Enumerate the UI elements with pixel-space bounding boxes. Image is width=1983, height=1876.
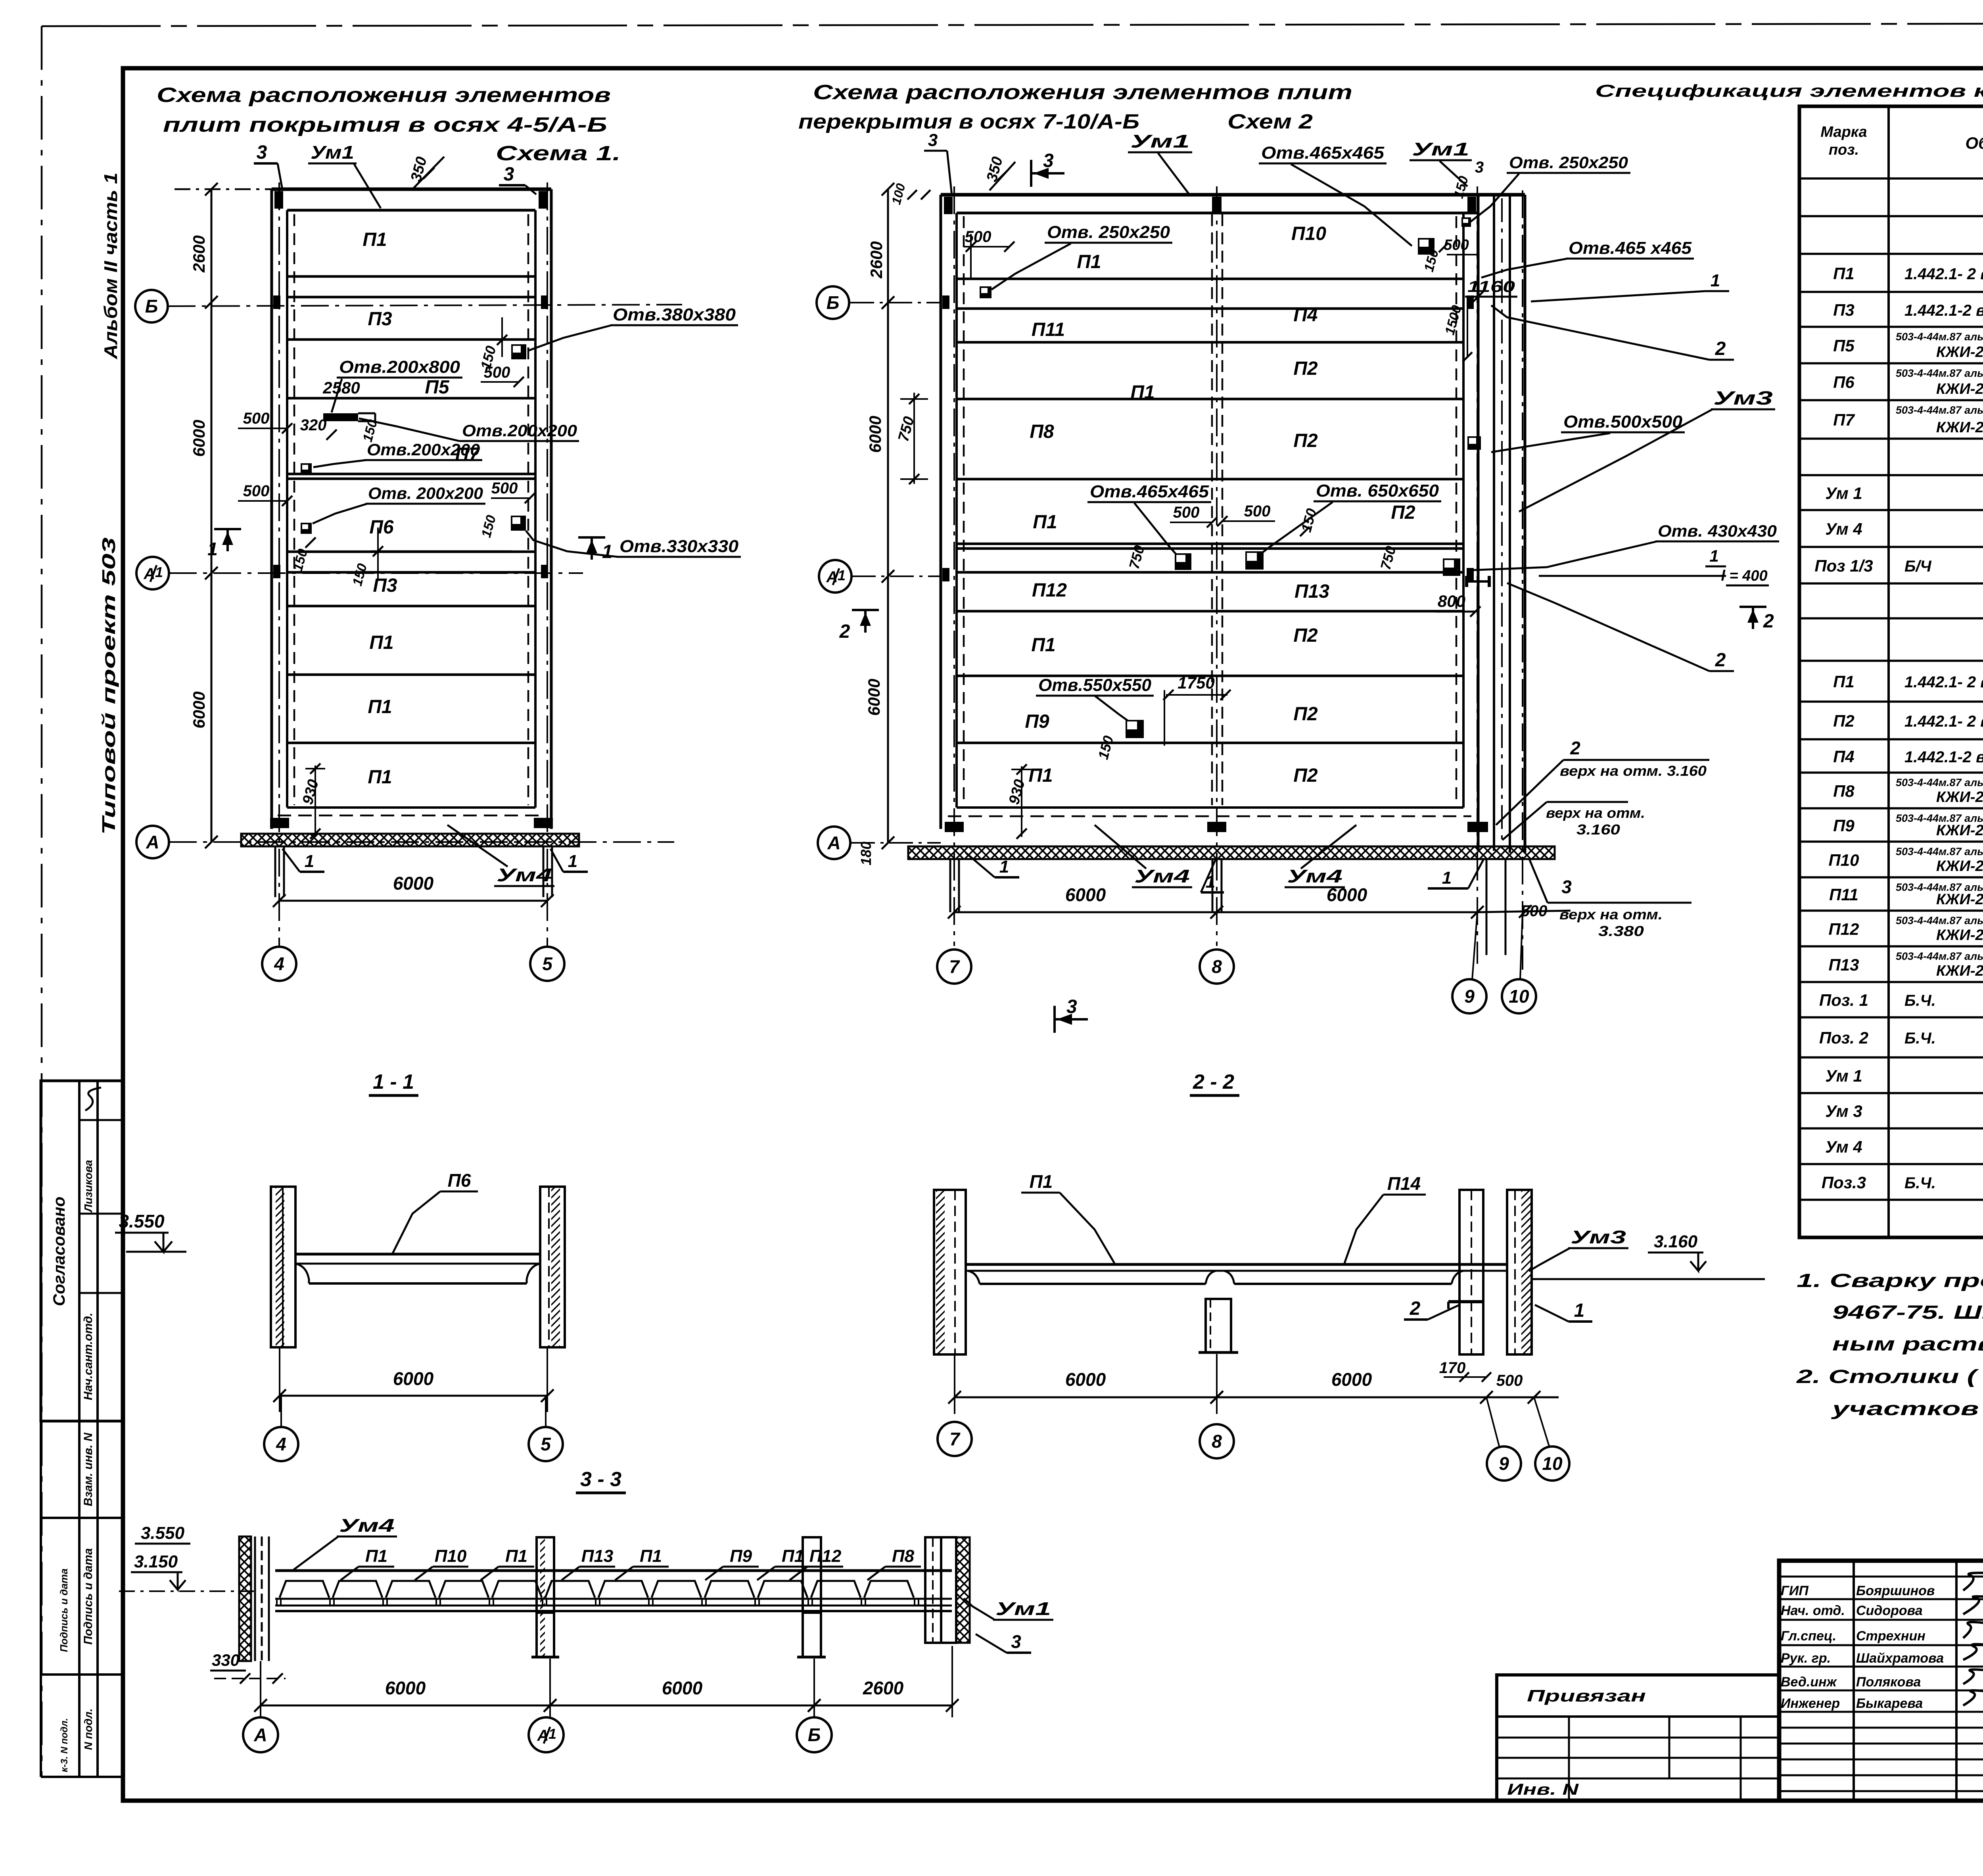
column top marks schema 2	[944, 197, 953, 214]
svg-text:1: 1	[999, 857, 1009, 877]
svg-text:П1: П1	[1030, 1171, 1053, 1192]
svg-text:6000: 6000	[866, 416, 884, 453]
svg-text:Альбом II часть 1: Альбом II часть 1	[100, 173, 121, 359]
column bases schema 2	[945, 822, 964, 832]
svg-text:Ум 1: Ум 1	[1825, 484, 1862, 503]
svg-text:2600: 2600	[863, 1678, 904, 1698]
svg-text:2: 2	[1410, 1298, 1421, 1319]
svg-text:Б.Ч.: Б.Ч.	[1904, 992, 1936, 1009]
svg-text:1160: 1160	[1467, 278, 1515, 295]
schema 2 monolith hatch strip	[908, 846, 1555, 859]
svg-text:Инв. N: Инв. N	[1507, 1781, 1579, 1798]
svg-text:500: 500	[1444, 237, 1469, 253]
svg-text:КЖИ-2П1-2АVIт -1: КЖИ-2П1-2АVIт -1	[1936, 344, 1983, 361]
title block outer	[1779, 1561, 1983, 1801]
svg-text:Подпись и дата: Подпись и дата	[82, 1548, 95, 1644]
axis circle 4	[262, 947, 296, 981]
svg-text:А: А	[253, 1724, 267, 1745]
svg-text:Б: Б	[827, 292, 840, 313]
svg-text:Согласовано: Согласовано	[50, 1197, 68, 1306]
svg-text:500: 500	[1521, 902, 1548, 920]
svg-text:1.442.1-2 вып. 1: 1.442.1-2 вып. 1	[1904, 302, 1983, 319]
svg-text:8: 8	[1212, 956, 1222, 977]
svg-text:верх на отм.: верх на отм.	[1559, 906, 1663, 923]
svg-text:3: 3	[1475, 159, 1484, 176]
svg-text:Отв.200х200: Отв.200х200	[462, 421, 577, 440]
svg-text:3: 3	[928, 130, 938, 150]
svg-text:Рук. гр.: Рук. гр.	[1781, 1651, 1831, 1666]
section 3-3 ribbed slabs	[280, 1581, 329, 1598]
svg-text:6000: 6000	[385, 1678, 426, 1698]
schema 2 slab joint lines	[957, 278, 1463, 280]
svg-text:Схема расположения элементов п: Схема расположения элементов плит	[813, 81, 1352, 104]
svg-text:Стрехнин: Стрехнин	[1856, 1629, 1925, 1644]
svg-text:9: 9	[1499, 1453, 1509, 1474]
svg-text:1.442.1-2 вып. 1: 1.442.1-2 вып. 1	[1904, 748, 1983, 766]
section 2-2 left column	[934, 1190, 966, 1354]
svg-text:А: А	[146, 832, 159, 852]
svg-text:П6: П6	[1833, 373, 1855, 391]
svg-text:500: 500	[484, 364, 510, 381]
svg-text:Отв.500х500: Отв.500х500	[1563, 412, 1683, 432]
svg-text:3.380: 3.380	[1598, 923, 1644, 939]
hole 330x330 label with section mark 1	[578, 536, 605, 539]
svg-text:П13: П13	[1295, 581, 1329, 602]
svg-text:Полякова: Полякова	[1856, 1675, 1921, 1690]
svg-text:503-4-44м.87 альбом V: 503-4-44м.87 альбом V	[1896, 331, 1983, 343]
hole 380x380	[511, 344, 526, 359]
svg-text:6000: 6000	[865, 679, 883, 715]
svg-text:П3: П3	[373, 575, 397, 596]
svg-text:3: 3	[1043, 150, 1054, 171]
schema 2 vertical axes	[953, 186, 955, 946]
svg-text:П12: П12	[1032, 580, 1067, 601]
svg-text:1: 1	[602, 541, 613, 562]
svg-text:П1: П1	[1077, 251, 1101, 272]
svg-text:П1: П1	[1031, 635, 1055, 656]
schema 2 top right holes	[1418, 238, 1435, 255]
svg-text:9467-75. Швы между плитами: 9467-75. Швы между плитами заделывать це…	[1832, 1302, 1983, 1323]
svg-text:П11: П11	[1032, 319, 1065, 340]
svg-text:КЖИ-2П1-2АVIт - 4: КЖИ-2П1-2АVIт - 4	[1936, 789, 1983, 806]
svg-text:2. Столики ( поз. 1 ) для опи: 2. Столики ( поз. 1 ) для опирания ребер…	[1796, 1366, 1983, 1387]
hole 200x200 a	[301, 463, 312, 474]
svg-text:Б.Ч.: Б.Ч.	[1904, 1030, 1936, 1047]
svg-text:1.442.1- 2 вып. 1: 1.442.1- 2 вып. 1	[1904, 713, 1983, 730]
svg-text:КЖИ-2П1-2АVIт -1-1: КЖИ-2П1-2АVIт -1-1	[1936, 858, 1983, 875]
schema 1 bottom dim 6000	[279, 900, 547, 902]
schema 2 axis circles left	[850, 302, 941, 303]
svg-text:503-4-44м.87 альбом V: 503-4-44м.87 альбом V	[1896, 846, 1983, 857]
axis line А/1	[169, 572, 583, 574]
svg-text:1: 1	[568, 852, 577, 871]
svg-text:2600: 2600	[190, 235, 208, 272]
svg-text:КЖИ-2П1-2АVIт -3: КЖИ-2П1-2АVIт -3	[1936, 419, 1983, 436]
svg-text:П1: П1	[1130, 382, 1155, 403]
svg-text:1: 1	[1206, 872, 1215, 892]
svg-text:Схема расположения элементов: Схема расположения элементов	[157, 84, 611, 107]
svg-text:П9: П9	[1025, 711, 1049, 732]
svg-text:П2: П2	[1293, 625, 1318, 646]
svg-text:Инженер: Инженер	[1781, 1696, 1840, 1711]
schema 1 slab joint lines	[287, 275, 535, 278]
section 3-3 left wall	[239, 1536, 251, 1661]
svg-text:503-4-44м.87 альбом V: 503-4-44м.87 альбом V	[1896, 777, 1983, 788]
svg-text:Б: Б	[808, 1724, 821, 1745]
svg-text:П11: П11	[1829, 885, 1858, 904]
svg-text:П6: П6	[448, 1170, 471, 1191]
svg-text:П2: П2	[1293, 704, 1318, 725]
svg-text:П2: П2	[1833, 712, 1855, 730]
svg-text:9: 9	[1464, 986, 1475, 1007]
section 3-3 slab band	[275, 1569, 952, 1572]
svg-text:Лизикова: Лизикова	[82, 1160, 94, 1212]
svg-text:N подл.: N подл.	[82, 1709, 94, 1750]
section mark 2 left schema 2	[852, 609, 879, 611]
svg-text:П1: П1	[640, 1546, 662, 1566]
svg-text:3: 3	[1561, 877, 1572, 897]
svg-text:6000: 6000	[393, 1368, 434, 1389]
svg-text:Ум3: Ум3	[1571, 1227, 1626, 1247]
svg-text:3.150: 3.150	[134, 1552, 178, 1571]
wall column marks at axes schema 2	[942, 295, 949, 309]
svg-text:503-4-44м.87 альбом V: 503-4-44м.87 альбом V	[1896, 404, 1983, 416]
svg-text:1. Сварку производить электр: 1. Сварку производить электродами Э-42А …	[1797, 1270, 1983, 1291]
svg-text:3.550: 3.550	[141, 1523, 185, 1543]
svg-text:3: 3	[1066, 996, 1077, 1017]
column top marks schema 1	[274, 191, 283, 209]
svg-text:П4: П4	[1293, 305, 1318, 326]
schema 1 monolith hatch strip Ум4	[241, 834, 579, 846]
svg-text:П3: П3	[1833, 301, 1855, 319]
svg-text:503-4-44м.87 альбом V: 503-4-44м.87 альбом V	[1896, 367, 1983, 379]
axis circle А/1	[136, 557, 169, 589]
svg-text:Ум1: Ум1	[1412, 139, 1469, 159]
svg-text:330: 330	[212, 1651, 240, 1669]
svg-text:6000: 6000	[1065, 884, 1106, 905]
section 3-3 dims	[261, 1705, 550, 1707]
schema 2 middle joint axis 8	[1211, 214, 1213, 805]
svg-text:Быкарева: Быкарева	[1856, 1696, 1923, 1711]
section 1-1 mark left	[214, 528, 241, 530]
svg-text:П6: П6	[369, 517, 394, 538]
svg-text:П2: П2	[1293, 430, 1318, 451]
svg-text:8: 8	[1212, 1431, 1222, 1452]
section 2-2 middle column	[1206, 1299, 1231, 1352]
svg-text:КЖИ-2П1-2АVIт -5: КЖИ-2П1-2АVIт -5	[1936, 822, 1983, 839]
svg-text:1: 1	[305, 852, 314, 871]
svg-text:Отв. 250х250: Отв. 250х250	[1509, 153, 1628, 172]
svg-text:Отв.465х465: Отв.465х465	[1090, 482, 1209, 501]
svg-text:500: 500	[243, 410, 270, 427]
outer border top	[42, 23, 1983, 26]
svg-text:500: 500	[1496, 1372, 1523, 1389]
svg-text:Ум1: Ум1	[1130, 131, 1190, 152]
svg-text:ным раствором марки „ 200.": ным раствором марки „ 200."	[1832, 1334, 1983, 1355]
svg-text:1.442.1- 2 вып. 1: 1.442.1- 2 вып. 1	[1904, 265, 1983, 283]
schema 1 left vertical dim	[211, 189, 213, 842]
svg-text:1: 1	[838, 567, 846, 583]
axis circle Б	[135, 290, 168, 322]
section 3-3 rib ticks	[276, 1599, 278, 1606]
svg-text:3.160: 3.160	[1654, 1232, 1698, 1251]
svg-text:4: 4	[274, 953, 284, 974]
svg-text:Ум 1: Ум 1	[1825, 1067, 1862, 1085]
section 2-2 dims	[955, 1396, 1217, 1398]
svg-text:Ум 4: Ум 4	[1825, 1137, 1862, 1156]
svg-text:П10: П10	[1829, 851, 1859, 869]
svg-text:П9: П9	[1833, 816, 1855, 835]
svg-text:участков приварить на колонн: участков приварить на колоннах на отм. 3…	[1831, 1398, 1983, 1419]
svg-text:10: 10	[1542, 1453, 1563, 1474]
svg-text:Отв.330х330: Отв.330х330	[619, 537, 739, 556]
svg-text:Нач.сант.отд.: Нач.сант.отд.	[82, 1313, 95, 1400]
привязан block	[1497, 1675, 1779, 1801]
svg-text:верх на отм.: верх на отм.	[1546, 805, 1645, 821]
svg-text:2: 2	[1715, 338, 1726, 359]
title block signatures squiggles	[1963, 1573, 1983, 1705]
svg-text:Отв.550х550: Отв.550х550	[1038, 675, 1152, 695]
svg-text:Б.Ч.: Б.Ч.	[1904, 1174, 1936, 1192]
svg-text:П10: П10	[435, 1546, 467, 1566]
margin stamp Согласовано block	[41, 1081, 123, 1421]
svg-text:КЖИ-2П1-2АVIт -2-2: КЖИ-2П1-2АVIт -2-2	[1936, 927, 1983, 944]
section 3-3 right wall	[925, 1537, 941, 1643]
svg-text:П8: П8	[892, 1546, 915, 1566]
svg-text:П4: П4	[1833, 747, 1855, 766]
svg-text:Отв.465 х465: Отв.465 х465	[1569, 238, 1692, 258]
outer border left	[41, 26, 43, 1777]
svg-text:3: 3	[504, 164, 514, 185]
svg-text:П8: П8	[1030, 421, 1054, 442]
svg-text:П1: П1	[365, 1546, 387, 1566]
section 1-1 left column	[271, 1187, 295, 1347]
svg-text:КЖИ-2П1-2АVIт -2: КЖИ-2П1-2АVIт -2	[1936, 381, 1983, 397]
svg-text:170: 170	[1439, 1359, 1466, 1377]
svg-text:П9: П9	[730, 1546, 752, 1566]
svg-text:П13: П13	[1829, 955, 1859, 974]
svg-text:П1: П1	[1028, 765, 1053, 786]
section 1-1 dim 6000	[280, 1395, 547, 1397]
svg-text:Схем 2: Схем 2	[1227, 110, 1313, 133]
svg-text:П1: П1	[368, 696, 392, 717]
schema 2 left vertical dim	[887, 189, 889, 842]
schema 1 axis 5 vertical	[547, 182, 548, 946]
svg-text:Поз. 1: Поз. 1	[1819, 991, 1868, 1009]
axis circle 8	[1200, 950, 1234, 984]
svg-text:А: А	[827, 832, 840, 853]
svg-text:П8: П8	[1833, 782, 1855, 800]
svg-text:10: 10	[1509, 986, 1529, 1007]
column stubs below hatch schema 1	[274, 846, 276, 897]
svg-text:1.442.1- 2 вып. 1: 1.442.1- 2 вып. 1	[1904, 673, 1983, 691]
svg-text:П1: П1	[1033, 512, 1057, 533]
axis line Б	[168, 305, 682, 306]
svg-text:500: 500	[1173, 504, 1200, 521]
svg-text:перекрытия в осях 7-10/А-Б: перекрытия в осях 7-10/А-Б	[798, 110, 1139, 133]
svg-text:П12: П12	[809, 1546, 842, 1566]
svg-text:500: 500	[965, 228, 991, 246]
title block signature columns	[1853, 1561, 1855, 1801]
svg-text:П2: П2	[1293, 358, 1318, 379]
svg-text:Ум3: Ум3	[1713, 388, 1773, 409]
section mark 3 bottom schema 2	[1053, 1006, 1056, 1033]
section 1-1 axis circles	[264, 1427, 298, 1461]
svg-text:Б/Ч: Б/Ч	[1904, 558, 1931, 575]
svg-text:П10: П10	[1291, 223, 1326, 244]
svg-text:2: 2	[839, 621, 850, 642]
svg-text:Взам. инв. N: Взам. инв. N	[82, 1432, 95, 1506]
svg-text:П14: П14	[1387, 1173, 1421, 1194]
svg-text:Вед.инж: Вед.инж	[1781, 1675, 1837, 1690]
svg-text:2: 2	[1763, 611, 1774, 632]
svg-text:6000: 6000	[662, 1678, 703, 1698]
svg-text:поз.: поз.	[1829, 142, 1859, 158]
svg-text:П5: П5	[425, 377, 450, 398]
svg-text:1: 1	[548, 1726, 556, 1742]
svg-text:П13: П13	[581, 1546, 614, 1566]
margin stamp lower blocks	[40, 1421, 42, 1777]
svg-text:l = 400: l = 400	[1721, 568, 1767, 584]
svg-text:П1: П1	[1833, 264, 1855, 283]
svg-text:П1: П1	[782, 1546, 804, 1566]
svg-text:3.160: 3.160	[1576, 821, 1620, 838]
schema 2 plan walls	[941, 193, 1525, 197]
svg-text:Ум1: Ум1	[311, 142, 354, 163]
svg-text:Нач. отд.: Нач. отд.	[1781, 1603, 1845, 1618]
svg-text:500: 500	[491, 480, 518, 497]
svg-text:180: 180	[858, 842, 874, 865]
svg-text:Привязан: Привязан	[1527, 1686, 1646, 1705]
svg-text:П1: П1	[1833, 672, 1855, 691]
svg-text:3 - 3: 3 - 3	[580, 1468, 621, 1491]
svg-text:1: 1	[1574, 1300, 1585, 1321]
svg-text:П1: П1	[368, 767, 392, 788]
column stubs below hatch schema 2	[1486, 859, 1488, 955]
axis circle 10	[1502, 979, 1536, 1013]
section 3-3 axis circles	[243, 1717, 278, 1752]
svg-text:3: 3	[257, 142, 267, 163]
svg-text:1 - 1: 1 - 1	[373, 1070, 414, 1093]
axis line А	[169, 841, 674, 843]
svg-text:5: 5	[542, 953, 553, 974]
svg-text:П3: П3	[368, 309, 392, 330]
schema 2 bottom dims	[954, 911, 1217, 913]
hole 200x800	[323, 413, 358, 421]
svg-text:верх на отм. 3.160: верх на отм. 3.160	[1560, 763, 1707, 779]
svg-text:Сидорова: Сидорова	[1856, 1603, 1923, 1618]
svg-text:П2: П2	[1293, 765, 1318, 786]
svg-text:Гл.спец.: Гл.спец.	[1781, 1629, 1836, 1644]
column bases schema 1	[270, 818, 289, 828]
svg-text:П12: П12	[1829, 920, 1859, 938]
section 3-3 columns	[537, 1537, 554, 1613]
svg-text:6000: 6000	[190, 691, 208, 728]
section 2-2 slab	[966, 1263, 1507, 1266]
axis circle 5	[530, 947, 564, 981]
svg-text:3: 3	[1011, 1631, 1021, 1652]
svg-text:500: 500	[1244, 503, 1271, 520]
svg-text:плит покрытия в осях 4-5/А-Б: плит покрытия в осях 4-5/А-Б	[163, 113, 607, 136]
svg-text:6000: 6000	[393, 873, 434, 894]
svg-text:7: 7	[949, 956, 960, 977]
svg-text:Спецификация элементов к схе: Спецификация элементов к схемам располож…	[1595, 81, 1983, 101]
svg-text:Отв. 650х650: Отв. 650х650	[1316, 481, 1439, 501]
svg-text:Поз. 2: Поз. 2	[1819, 1028, 1868, 1047]
svg-text:2: 2	[1570, 738, 1580, 758]
svg-text:Ум4: Ум4	[497, 865, 552, 885]
svg-text:503-4-44м.87 альбом V: 503-4-44м.87 альбом V	[1896, 915, 1983, 926]
svg-text:Отв.465х465: Отв.465х465	[1261, 143, 1385, 163]
svg-text:Отв.380х380: Отв.380х380	[613, 305, 736, 324]
svg-text:1: 1	[1711, 271, 1720, 290]
section 2-2 right columns	[1459, 1190, 1483, 1354]
svg-text:7: 7	[949, 1429, 961, 1449]
svg-text:Марка: Марка	[1820, 124, 1867, 140]
svg-text:П1: П1	[505, 1546, 527, 1566]
svg-text:Ум 4: Ум 4	[1825, 520, 1862, 538]
axis circle А	[136, 826, 169, 858]
axis circle 9	[1452, 979, 1486, 1013]
svg-text:Отв. 430х430: Отв. 430х430	[1658, 522, 1777, 540]
svg-text:Отв. 200х200: Отв. 200х200	[368, 484, 483, 503]
schema 1 axis 4 vertical	[278, 182, 280, 946]
svg-text:6000: 6000	[190, 420, 208, 457]
spec table grid	[1799, 106, 1983, 1237]
section 2-2 table bracket poz1	[1448, 1300, 1483, 1303]
svg-text:500: 500	[243, 482, 270, 500]
svg-text:320: 320	[300, 416, 327, 434]
svg-text:Поз 1/3: Поз 1/3	[1814, 556, 1873, 575]
svg-text:1: 1	[207, 539, 218, 559]
svg-text:П1: П1	[362, 229, 387, 250]
svg-text:Ум 3: Ум 3	[1825, 1102, 1862, 1120]
svg-text:800: 800	[1438, 592, 1465, 610]
svg-text:Бояршинов: Бояршинов	[1856, 1583, 1935, 1598]
svg-text:2 - 2: 2 - 2	[1193, 1070, 1234, 1093]
svg-text:Ум4: Ум4	[339, 1515, 395, 1536]
svg-text:Отв. 250х250: Отв. 250х250	[1047, 223, 1170, 242]
svg-text:Подпись и дата: Подпись и дата	[58, 1569, 70, 1652]
schema 1 plan walls	[272, 188, 551, 191]
svg-text:503-4-44м.87 альбом V: 503-4-44м.87 альбом V	[1896, 950, 1983, 962]
svg-text:1: 1	[155, 564, 163, 580]
schema 1 hidden dash lines	[293, 214, 295, 805]
section 2-2 axis circles	[938, 1422, 972, 1456]
axis circle 7	[937, 950, 971, 984]
svg-text:П7: П7	[1833, 410, 1855, 429]
svg-text:3.550: 3.550	[119, 1211, 165, 1231]
svg-text:Ум1: Ум1	[995, 1598, 1051, 1619]
schema 2 hidden dash lines	[963, 216, 965, 805]
svg-text:Ум4: Ум4	[1134, 866, 1190, 886]
svg-text:4: 4	[276, 1434, 286, 1454]
section 1-1 right column	[540, 1187, 565, 1347]
svg-text:6000: 6000	[1331, 1369, 1372, 1390]
svg-text:КЖИ-2П1-2АVIт -2-1: КЖИ-2П1-2АVIт -2-1	[1936, 891, 1983, 908]
svg-text:6000: 6000	[1065, 1369, 1106, 1390]
svg-text:Типовой проект 503: Типовой проект 503	[98, 537, 119, 835]
svg-text:2: 2	[1715, 650, 1726, 671]
I-beam marker near 9 axis	[1465, 576, 1468, 587]
svg-text:ГИП: ГИП	[1781, 1583, 1809, 1598]
svg-text:Шайхратова: Шайхратова	[1856, 1651, 1944, 1666]
svg-text:1: 1	[1442, 868, 1452, 888]
svg-text:2600: 2600	[867, 241, 886, 278]
svg-text:П1: П1	[369, 632, 393, 653]
svg-text:1: 1	[1709, 547, 1718, 565]
svg-text:Б: Б	[145, 296, 158, 317]
